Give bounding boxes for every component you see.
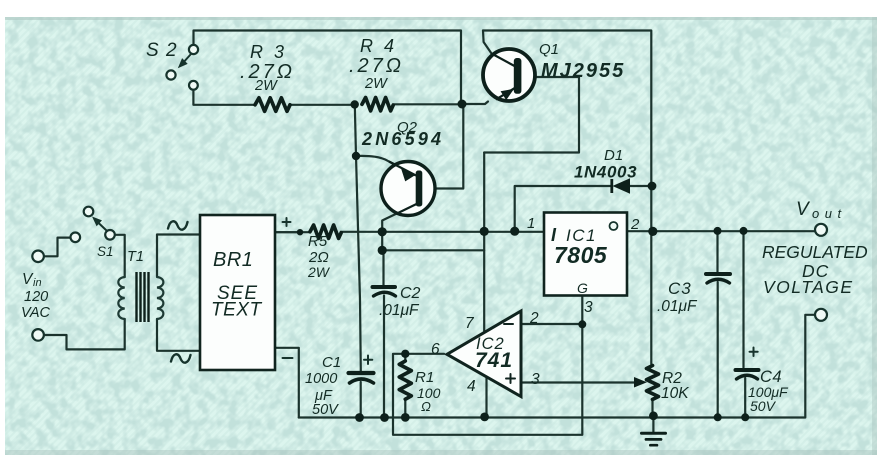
svg-text:D1: D1: [604, 147, 623, 164]
svg-text:Q1: Q1: [539, 41, 559, 58]
svg-text:7: 7: [465, 315, 475, 332]
svg-text:.01μF: .01μF: [657, 298, 698, 315]
svg-text:REGULATED: REGULATED: [762, 242, 868, 262]
svg-text:120: 120: [24, 289, 48, 305]
svg-text:R 3: R 3: [250, 42, 287, 62]
svg-text:C1: C1: [322, 354, 341, 371]
svg-text:out: out: [812, 206, 847, 221]
svg-text:2: 2: [529, 310, 539, 327]
svg-text:S 2: S 2: [146, 40, 178, 61]
svg-text:T1: T1: [127, 249, 144, 265]
svg-text:3: 3: [531, 371, 540, 388]
svg-text:50V: 50V: [312, 402, 339, 418]
svg-text:VOLTAGE: VOLTAGE: [763, 277, 854, 297]
svg-text:741: 741: [475, 349, 513, 372]
svg-text:.01μF: .01μF: [379, 302, 420, 319]
svg-text:R1: R1: [415, 369, 434, 386]
svg-text:C2: C2: [400, 285, 421, 302]
svg-text:MJ2955: MJ2955: [541, 60, 625, 82]
svg-text:50V: 50V: [750, 398, 777, 414]
svg-text:6: 6: [431, 341, 440, 358]
svg-text:4: 4: [467, 378, 476, 395]
svg-text:2W: 2W: [364, 76, 388, 92]
svg-text:R 4: R 4: [360, 36, 397, 56]
svg-text:7805: 7805: [554, 242, 608, 268]
svg-text:1: 1: [527, 215, 535, 232]
svg-text:1N4003: 1N4003: [574, 163, 637, 182]
svg-text:10K: 10K: [661, 385, 689, 402]
svg-text:2W: 2W: [307, 264, 331, 280]
svg-text:Ω: Ω: [421, 399, 431, 414]
svg-text:TEXT: TEXT: [211, 300, 262, 321]
svg-text:VAC: VAC: [21, 305, 51, 321]
svg-text:G: G: [577, 280, 588, 296]
svg-text:3: 3: [584, 299, 593, 316]
svg-text:S1: S1: [97, 244, 114, 259]
svg-text:1000: 1000: [305, 371, 337, 387]
svg-text:2: 2: [630, 216, 640, 233]
svg-text:2W: 2W: [254, 78, 278, 94]
svg-text:.27Ω: .27Ω: [349, 55, 404, 77]
svg-text:BR1: BR1: [213, 249, 253, 271]
svg-text:in: in: [33, 277, 42, 289]
svg-text:2N6594: 2N6594: [361, 129, 444, 149]
svg-text:C3: C3: [668, 279, 692, 298]
svg-text:R5: R5: [308, 233, 328, 250]
